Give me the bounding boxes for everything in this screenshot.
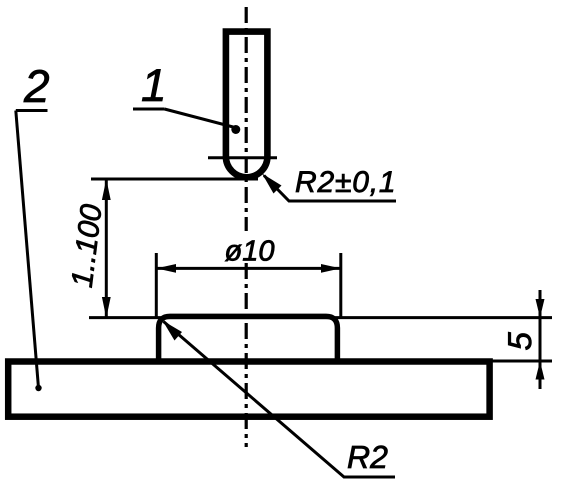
svg-text:ø10: ø10 [225, 236, 275, 268]
label 1 leader dot [231, 125, 240, 134]
extension line at plate top level (right of plate, bottom of 5) [490, 360, 552, 363]
label 1 leader [165, 109, 236, 128]
label 2 leader dot [35, 385, 41, 391]
arc-center tick at pin tip [208, 156, 277, 159]
centerline (vertical dash-dot axis) [245, 7, 248, 447]
svg-text:1: 1 [141, 59, 167, 111]
label 1 underline [133, 108, 165, 111]
dimension 1...100 vertical line [105, 179, 108, 318]
label 2 underline [16, 109, 48, 112]
arrow left (Ø10) [156, 264, 176, 273]
svg-text:2: 2 [23, 60, 50, 112]
arrow down (1...100 bottom) [102, 297, 111, 318]
diameter dimension extension line left [155, 253, 158, 318]
diameter dimension extension line right [339, 253, 342, 318]
pin item 1 (rod with spherical tip) [223, 32, 271, 178]
extension line at boss top level (bottom of 1...100, left of 5) [89, 316, 552, 319]
svg-text:R2±0,1: R2±0,1 [295, 166, 396, 199]
boss (raised pad on plate, R2 corners) [159, 316, 338, 362]
svg-text:R2: R2 [347, 439, 388, 475]
R2 leader arrowhead at boss corner [163, 321, 183, 341]
dimension text Ø10 [224, 235, 276, 263]
R2±0,1 leader [264, 176, 396, 202]
arrow up (5 bottom, outside) [536, 361, 545, 380]
dimension line Ø10 [156, 267, 340, 270]
arrow up (1...100 top) [102, 179, 111, 200]
dimension 5 vertical line [539, 290, 542, 389]
arrow right (Ø10) [321, 264, 341, 273]
label 2 leader [16, 111, 39, 389]
extension line at pin tip (top of 1...100) [91, 178, 258, 181]
svg-text:5: 5 [501, 332, 538, 351]
arrow down (5 top, outside) [536, 299, 545, 318]
R2 leader [164, 322, 396, 478]
plate item 2 [8, 362, 489, 417]
R2±0,1 leader arrowhead at pin tip [262, 174, 282, 194]
